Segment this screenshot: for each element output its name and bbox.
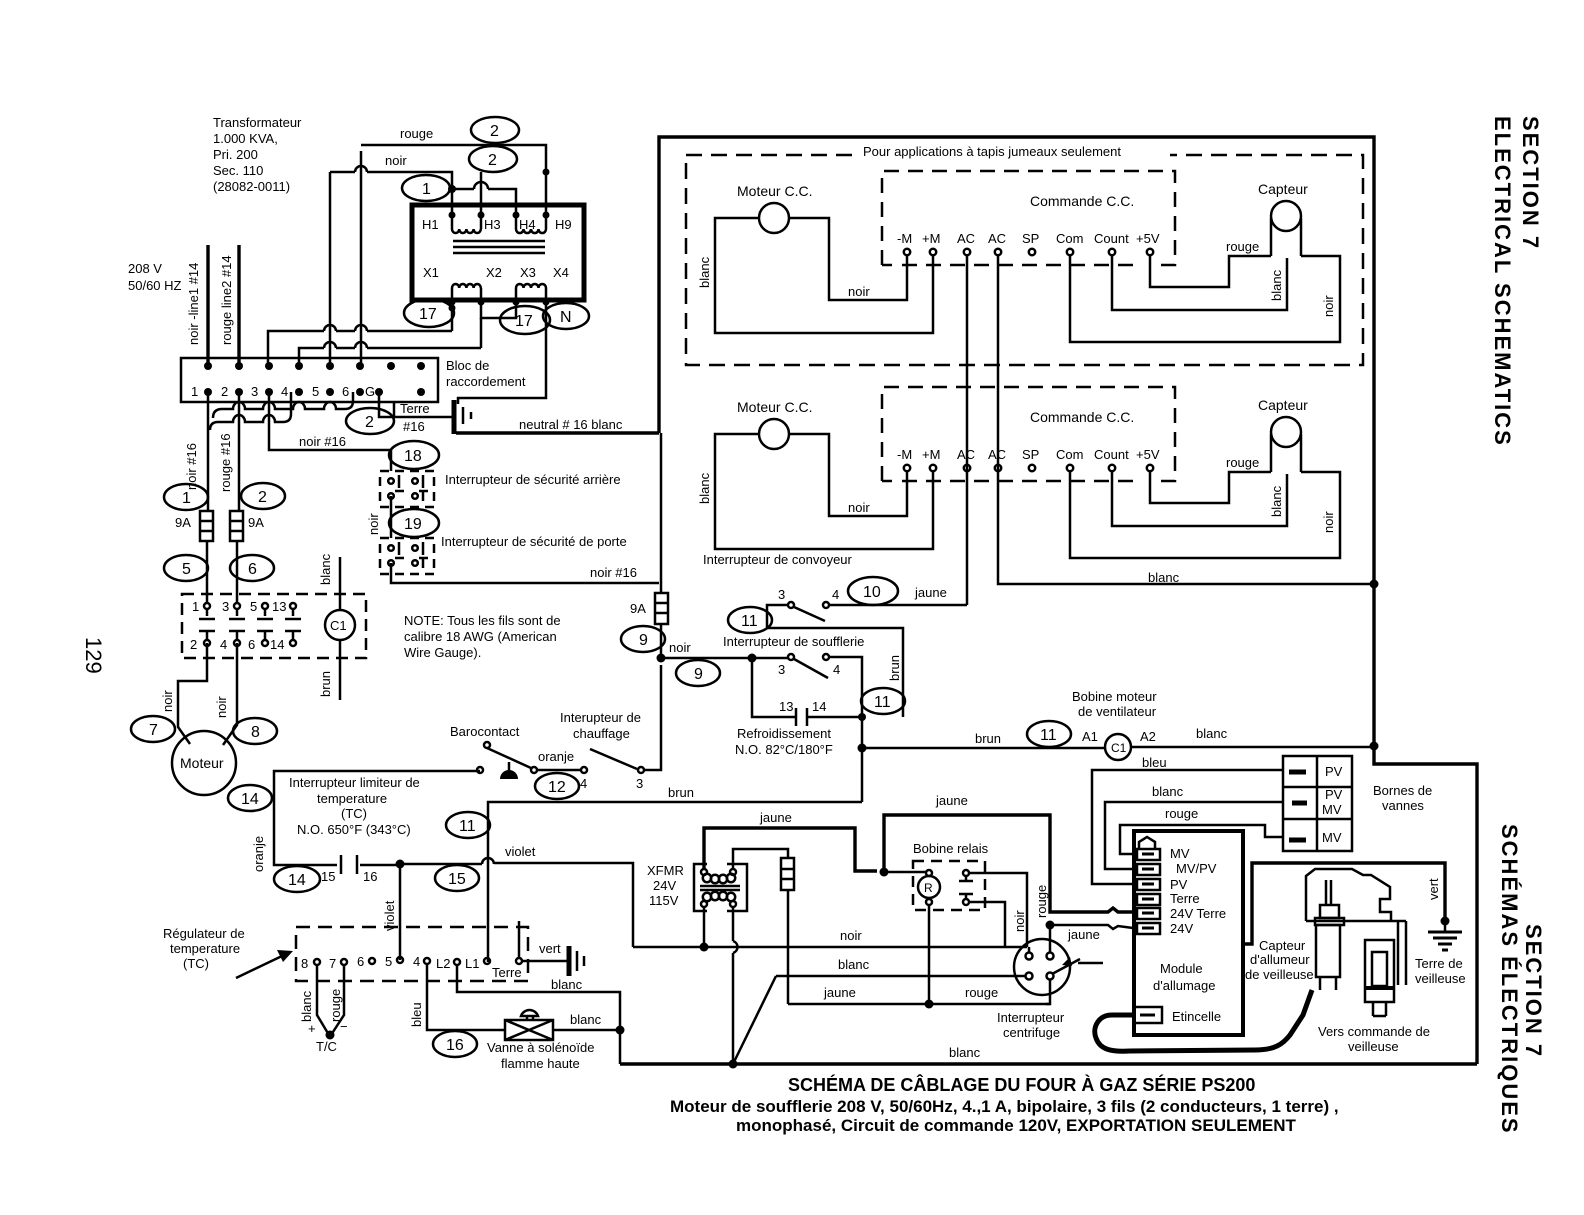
svg-text:R: R [924, 881, 933, 895]
oval callout 14 [228, 785, 272, 811]
motor M1 [172, 731, 236, 795]
svg-text:Interrupteur de soufflerie: Interrupteur de soufflerie [723, 634, 864, 649]
wire 3 left and down [767, 605, 903, 717]
svg-text:Vanne à solénoïde: Vanne à solénoïde [487, 1040, 594, 1055]
oval callout 17 right [500, 306, 550, 334]
svg-text:jaune: jaune [914, 585, 947, 600]
svg-text:H9: H9 [555, 217, 572, 232]
thermocouple T/C junction [326, 1031, 335, 1040]
wire jaune down to centrifugal [1049, 925, 1052, 953]
heating switch blade [590, 749, 637, 769]
wire rouge from block 6 to H9 [361, 145, 546, 364]
wire neutral #16 to right box [456, 431, 659, 434]
node X1 wire dot [449, 305, 456, 312]
node rouge H9 junction [543, 169, 550, 176]
svg-text:Etincelle: Etincelle [1172, 1009, 1221, 1024]
svg-text:−: − [340, 1019, 348, 1034]
barocontact blade [487, 748, 531, 768]
rear safety switch S18 box [380, 471, 434, 507]
door safety switch S19 box [380, 538, 434, 574]
oval callout 9 [621, 626, 665, 652]
svg-text:Interrupteur de sécurité arriè: Interrupteur de sécurité arrière [445, 472, 621, 487]
oval callout N [543, 303, 589, 329]
svg-text:3: 3 [778, 662, 785, 677]
svg-text:17: 17 [515, 313, 533, 330]
svg-text:7: 7 [329, 956, 336, 971]
svg-text:blanc: blanc [551, 977, 583, 992]
svg-text:XFMR: XFMR [647, 863, 684, 878]
svg-text:Transformateur: Transformateur [213, 115, 302, 130]
svg-text:4: 4 [580, 776, 587, 791]
svg-text:Interrupteur: Interrupteur [997, 1010, 1065, 1025]
svg-text:blanc: blanc [570, 1012, 602, 1027]
svg-text:Barocontact: Barocontact [450, 724, 520, 739]
node vert ground junction [1441, 917, 1450, 926]
svg-text:noir -line1 #14: noir -line1 #14 [186, 263, 201, 345]
svg-text:1.000 KVA,: 1.000 KVA, [213, 131, 278, 146]
svg-text:2: 2 [490, 123, 499, 140]
svg-text:X3: X3 [520, 265, 536, 280]
svg-text:blanc: blanc [1148, 570, 1180, 585]
svg-text:blanc: blanc [949, 1045, 981, 1060]
oval callout 11b [861, 688, 905, 714]
module terminal Terre [1137, 894, 1160, 905]
svg-text:Régulateur de: Régulateur de [163, 926, 245, 941]
svg-text:PV: PV [1325, 787, 1343, 802]
svg-text:9A: 9A [175, 515, 191, 530]
XFMR T2 core [700, 886, 740, 890]
node XFMR blanc junction [729, 1060, 738, 1069]
svg-text:Moteur de soufflerie 208 V, 50: Moteur de soufflerie 208 V, 50/60Hz, 4.,… [670, 1097, 1339, 1116]
svg-text:5: 5 [250, 599, 257, 614]
DC motor set lower [697, 387, 1340, 558]
node blanc bus junction [1370, 580, 1379, 589]
svg-text:rouge: rouge [965, 985, 998, 1000]
svg-text:d'allumeur: d'allumeur [1250, 952, 1310, 967]
svg-text:jaune: jaune [1067, 927, 1100, 942]
XFMR terminals [701, 869, 736, 907]
svg-text:Terre: Terre [492, 965, 522, 980]
svg-text:X1: X1 [423, 265, 439, 280]
wire valve to blanc bus [553, 1029, 620, 1032]
svg-text:PV: PV [1325, 764, 1343, 779]
svg-text:15: 15 [321, 869, 335, 884]
svg-text:4: 4 [833, 662, 840, 677]
wire relay contact bottom right [969, 902, 1005, 947]
svg-text:#16: #16 [403, 419, 425, 434]
contactor pole 5-6 [257, 603, 273, 646]
svg-text:noir: noir [366, 513, 381, 535]
relay contact [959, 870, 973, 905]
transformer T1 secondary coil X1-X2 [452, 284, 481, 302]
wire F2 to contactor 3 [236, 541, 239, 603]
svg-text:MV: MV [1322, 802, 1342, 817]
svg-text:16: 16 [446, 1037, 464, 1054]
svg-text:115V: 115V [649, 893, 679, 908]
hops X1 wire over rouge and noir verticals [324, 325, 367, 331]
svg-text:5: 5 [182, 561, 191, 578]
hop XFMR right over noir [733, 941, 738, 953]
svg-text:14: 14 [812, 699, 826, 714]
svg-text:rouge: rouge [1165, 806, 1198, 821]
oval callout 11 [728, 607, 772, 633]
svg-text:11: 11 [874, 694, 891, 711]
svg-text:2: 2 [488, 152, 497, 169]
fuse F2 9A [230, 511, 243, 541]
contactor pole 3-4 [229, 603, 245, 646]
svg-text:19: 19 [404, 516, 422, 533]
wire noir to blower switch [661, 657, 788, 660]
module terminal MV [1137, 849, 1160, 860]
wire X2-X3 jumper [481, 302, 516, 318]
node jaune 24v junction [1046, 921, 1055, 930]
oval callout 7 [131, 716, 175, 742]
oval callout 1 [402, 175, 450, 201]
wire relay contact top to noir [969, 873, 1027, 947]
igniter collar [1320, 905, 1339, 918]
oval callout 1 [164, 484, 208, 510]
contactor C1 box [182, 594, 366, 658]
transformer T1 core lines [453, 241, 545, 253]
svg-text:A1: A1 [1082, 729, 1098, 744]
svg-text:Interupteur de: Interupteur de [560, 710, 641, 725]
module house mark [1139, 837, 1155, 849]
svg-text:SCHÉMA DE CÂBLAGE DU FOUR À GA: SCHÉMA DE CÂBLAGE DU FOUR À GAZ SÉRIE PS… [788, 1074, 1255, 1095]
svg-text:(TC): (TC) [183, 956, 209, 971]
svg-text:brun: brun [318, 671, 333, 697]
svg-text:14: 14 [270, 637, 284, 652]
wire violet horizontal to noir bus [400, 863, 633, 947]
svg-text:violet: violet [505, 844, 536, 859]
regulator terminals [314, 957, 522, 965]
wire H3 up [480, 172, 483, 215]
wire blanc stub above C1 [339, 557, 342, 610]
wire jaune to relay coil [888, 871, 926, 874]
oval callout 2 [241, 483, 285, 509]
svg-text:Module: Module [1160, 961, 1203, 976]
wire oranje [537, 769, 581, 772]
valve terminal box [1283, 756, 1352, 851]
hops block4 wire [324, 342, 367, 348]
svg-text:ELECTRICAL SCHEMATICS: ELECTRICAL SCHEMATICS [1490, 116, 1515, 447]
transformer T1 terminal dots [449, 212, 550, 306]
svg-text:Bobine relais: Bobine relais [913, 841, 989, 856]
svg-text:7: 7 [149, 722, 158, 739]
wire block1 down to fuse F1 [207, 392, 210, 511]
module terminal PV [1137, 879, 1160, 890]
svg-text:14: 14 [288, 872, 306, 889]
svg-text:MV: MV [1170, 846, 1190, 861]
jumper braid row 1 [213, 392, 353, 418]
node relay jaune junction [925, 1000, 934, 1009]
transformer T1 primary coil H1-H3 [452, 215, 481, 233]
svg-text:H3: H3 [484, 217, 501, 232]
oval callout 11 [446, 812, 490, 838]
svg-text:9: 9 [639, 632, 648, 649]
svg-text:24V Terre: 24V Terre [1170, 906, 1226, 921]
svg-text:5: 5 [312, 384, 319, 399]
igniter body [1316, 925, 1340, 977]
wire jaune XFMR left top [704, 828, 877, 871]
svg-text:blanc: blanc [1152, 784, 1184, 799]
svg-text:jaune: jaune [759, 810, 792, 825]
svg-text:brun: brun [887, 655, 902, 681]
svg-text:1: 1 [191, 384, 198, 399]
svg-text:temperature: temperature [170, 941, 240, 956]
igniter bracket [1306, 869, 1406, 921]
svg-text:bleu: bleu [1142, 755, 1167, 770]
node A2 blanc junction [1370, 742, 1379, 751]
oval callout 8 [233, 718, 277, 744]
svg-text:208 V: 208 V [128, 261, 162, 276]
node noir junction [657, 654, 666, 663]
hop jumper over H3 [474, 182, 488, 189]
contactor coil C1 [325, 610, 355, 640]
valve terminal dashes [1289, 772, 1307, 840]
svg-text:24V: 24V [653, 878, 676, 893]
svg-text:2: 2 [365, 414, 374, 431]
svg-text:+: + [308, 1021, 316, 1036]
svg-text:calibre 18 AWG (American: calibre 18 AWG (American [404, 629, 557, 644]
oval callout 11c [1027, 721, 1071, 747]
svg-text:Interrupteur limiteur de: Interrupteur limiteur de [289, 775, 420, 790]
svg-text:Capteur: Capteur [1259, 938, 1306, 953]
svg-text:bleu: bleu [409, 1002, 424, 1027]
blower switch lower contact 4 [823, 654, 829, 660]
svg-text:noir #16: noir #16 [590, 565, 637, 580]
svg-text:C1: C1 [330, 618, 347, 633]
centrifugal blade [1052, 959, 1103, 974]
svg-text:vert: vert [1426, 878, 1441, 900]
oval callout 14b [274, 866, 320, 892]
supply line2 rouge vertical [237, 245, 240, 364]
wire block2 down to fuse F2 [238, 392, 241, 511]
svg-text:brun: brun [975, 731, 1001, 746]
terminal block top row dots [204, 362, 425, 370]
centrifugal switch body [1014, 939, 1070, 995]
XFMR T2 box [694, 864, 747, 911]
svg-text:centrifuge: centrifuge [1003, 1025, 1060, 1040]
regulator pointer arrow [236, 956, 282, 978]
svg-text:Wire Gauge).: Wire Gauge). [404, 645, 481, 660]
svg-text:11: 11 [1040, 727, 1057, 744]
svg-text:chauffage: chauffage [573, 726, 630, 741]
svg-text:H4: H4 [519, 217, 536, 232]
svg-text:13: 13 [272, 599, 286, 614]
svg-text:monophasé, Circuit de commande: monophasé, Circuit de commande 120V, EXP… [736, 1116, 1296, 1135]
wire X4 neutral down to ground bus [458, 302, 546, 404]
svg-text:blanc: blanc [318, 553, 333, 585]
svg-text:3: 3 [222, 599, 229, 614]
svg-text:129: 129 [81, 637, 106, 674]
svg-text:oranje: oranje [251, 836, 266, 872]
svg-text:4: 4 [413, 954, 420, 969]
svg-text:blanc: blanc [1196, 726, 1228, 741]
svg-text:noir: noir [385, 153, 407, 168]
svg-text:A2: A2 [1140, 729, 1156, 744]
wire brun to L1 [488, 802, 862, 962]
fuse F4 9A on left edge [655, 593, 668, 624]
svg-text:rouge line2 #14: rouge line2 #14 [219, 255, 234, 345]
wire heating 3 to noir bus [644, 665, 661, 770]
wire X2 down to block 4 line [299, 318, 481, 364]
oval callout 5 [164, 555, 208, 581]
wire 4 down [829, 657, 862, 717]
svg-text:N: N [560, 309, 572, 326]
svg-text:6: 6 [248, 637, 255, 652]
svg-text:MV: MV [1322, 830, 1342, 845]
svg-text:9: 9 [694, 666, 703, 683]
svg-text:SCHÉMAS ÉLECTRIQUES: SCHÉMAS ÉLECTRIQUES [1497, 824, 1522, 1135]
wire XFMR right bottom down to blanc bus [732, 907, 735, 1064]
blower switch lower contact 3 [788, 654, 794, 660]
svg-text:Sec. 110: Sec. 110 [213, 163, 263, 178]
svg-text:8: 8 [301, 956, 308, 971]
limit switch contact 15-16 [341, 855, 357, 874]
wire rouge centrifugal bottom [1046, 979, 1050, 1004]
svg-text:5: 5 [385, 954, 392, 969]
oval callout 12 [535, 773, 579, 799]
wire jaune thick riser [884, 815, 1133, 912]
svg-text:3: 3 [778, 587, 785, 602]
svg-text:2: 2 [258, 489, 267, 506]
wire noir #16 from block3 to safety switch [269, 392, 391, 471]
svg-text:17: 17 [419, 306, 437, 323]
wire jaune AC1 vertical [966, 255, 969, 605]
fan coil C1 [1105, 734, 1131, 760]
svg-text:H1: H1 [422, 217, 439, 232]
relay coil R [918, 876, 940, 898]
svg-text:PV: PV [1170, 877, 1188, 892]
svg-text:Terre de: Terre de [1415, 956, 1463, 971]
wire bleu from regulator 4 to valve [427, 964, 505, 1030]
oval callout 10 [848, 577, 898, 605]
S19 contacts [388, 542, 428, 568]
svg-text:neutral # 16 blanc: neutral # 16 blanc [519, 417, 623, 432]
wire F1 to contactor 1 [206, 541, 209, 603]
svg-text:rouge: rouge [328, 989, 343, 1022]
wire brun stub below C1 [339, 640, 342, 700]
svg-text:Terre: Terre [400, 401, 430, 416]
transformer T1 core box [412, 205, 584, 300]
svg-text:50/60 HZ: 50/60 HZ [128, 278, 182, 293]
svg-text:11: 11 [741, 613, 758, 630]
svg-text:3: 3 [636, 776, 643, 791]
oval callout 9b [676, 660, 720, 686]
svg-text:(TC): (TC) [341, 806, 367, 821]
wire jaune-rouge horizontal [788, 1003, 1050, 1006]
svg-text:16: 16 [363, 869, 377, 884]
svg-text:Moteur: Moteur [180, 755, 224, 771]
svg-text:T/C: T/C [316, 1039, 337, 1054]
node H1 junction [448, 185, 456, 193]
module terminal 24V [1137, 923, 1160, 934]
svg-text:3: 3 [251, 384, 258, 399]
node XFMR noir junction [700, 943, 709, 952]
spark cable to pilot [1095, 990, 1312, 1051]
svg-text:11: 11 [459, 818, 476, 835]
wire noir horizontal [633, 946, 1027, 949]
svg-text:C1: C1 [1111, 741, 1127, 755]
svg-text:12: 12 [548, 779, 566, 796]
bleu wire to PV [1092, 770, 1283, 884]
wire brun down to A1 [862, 717, 1105, 802]
svg-text:14: 14 [241, 791, 259, 808]
svg-text:temperature: temperature [317, 791, 387, 806]
svg-text:rouge: rouge [400, 126, 433, 141]
svg-text:Terre: Terre [1170, 891, 1200, 906]
ground symbol pilot [1444, 921, 1447, 932]
heating switch contact 4 [581, 767, 587, 773]
svg-text:rouge #16: rouge #16 [218, 433, 233, 492]
svg-text:1: 1 [422, 181, 431, 198]
hop noir over rouge [355, 166, 367, 172]
svg-text:raccordement: raccordement [446, 374, 526, 389]
wire 4 to AC1 jaune [829, 604, 967, 607]
terminal block bottom row dots [204, 388, 425, 396]
svg-text:de veilleuse: de veilleuse [1245, 967, 1314, 982]
blower switch lower blade [794, 659, 828, 678]
svg-text:Bornes de: Bornes de [1373, 783, 1432, 798]
header white backing [860, 146, 1170, 160]
svg-text:9A: 9A [248, 515, 264, 530]
svg-text:brun: brun [668, 785, 694, 800]
svg-text:oranje: oranje [538, 749, 574, 764]
oval callout 16 [433, 1031, 477, 1057]
svg-text:Pri. 200: Pri. 200 [213, 147, 258, 162]
svg-text:noir: noir [160, 690, 175, 712]
svg-text:blanc: blanc [299, 990, 314, 1022]
svg-text:veilleuse: veilleuse [1415, 971, 1466, 986]
XFMR T2 secondary coil [703, 892, 735, 901]
svg-text:jaune: jaune [823, 985, 856, 1000]
relay coil terminals [926, 870, 932, 876]
terre electrode body [1365, 940, 1394, 1002]
svg-text:SECTION 7: SECTION 7 [1518, 116, 1543, 250]
wire blanc AC2 vertical [998, 255, 1374, 584]
barocontact contacts [477, 767, 483, 773]
relay K1 dashed box [913, 861, 985, 910]
svg-text:noir: noir [214, 696, 229, 718]
svg-text:vannes: vannes [1382, 798, 1424, 813]
node blower junction [748, 654, 757, 663]
transformer T1 primary coil H4-H9 [516, 215, 546, 233]
barocontact pivot dot [484, 742, 490, 748]
svg-text:2: 2 [221, 384, 228, 399]
ground bar symbol [452, 400, 457, 434]
svg-text:Bloc de: Bloc de [446, 358, 489, 373]
wire relay coil bottom to jaune-rouge [928, 905, 931, 1004]
svg-text:24V: 24V [1170, 921, 1193, 936]
svg-text:1: 1 [182, 490, 191, 507]
wire X1 to block 3 [268, 302, 452, 364]
igniter electrode pin [1326, 880, 1331, 905]
fuse F3 [781, 858, 794, 890]
wire noir from block 5 to H1 [330, 172, 452, 364]
svg-text:vert: vert [539, 941, 561, 956]
wire blanc bottom bus [620, 1062, 1477, 1065]
regulator dashed box [296, 927, 528, 981]
svg-text:13: 13 [779, 699, 793, 714]
svg-text:Interrupteur de convoyeur: Interrupteur de convoyeur [703, 552, 853, 567]
hop violet over brun [482, 858, 494, 864]
svg-text:rouge: rouge [1034, 885, 1049, 918]
transformer T1 secondary coil X3-X4 [516, 284, 546, 302]
ignition module box [1134, 831, 1243, 1035]
barocontact bell [500, 770, 518, 779]
thermocouple wires [317, 965, 344, 1035]
centrifugal switch contacts [1026, 947, 1054, 980]
